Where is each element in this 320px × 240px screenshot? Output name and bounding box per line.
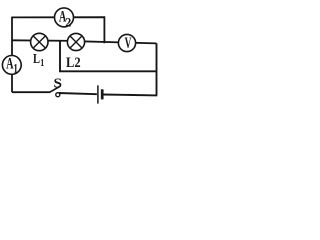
background bbox=[0, 0, 168, 107]
wire: top branch through ammeter A2 bbox=[12, 17, 104, 43]
svg-text:2: 2 bbox=[65, 14, 71, 29]
svg-text:S: S bbox=[54, 76, 63, 91]
wire: middle row right segment (through V) bbox=[76, 41, 157, 43]
wire: right vertical bbox=[156, 43, 158, 95]
svg-text:V: V bbox=[125, 35, 132, 52]
svg-text:L2: L2 bbox=[66, 55, 81, 71]
lamp L2 bbox=[67, 33, 84, 50]
wire: bottom segment battery to bottom-right corner bbox=[103, 94, 157, 97]
wire: bottom segment switch to battery bbox=[59, 93, 97, 94]
wire: middle row left segment (through L1, L2) bbox=[12, 39, 76, 42]
ammeter A2 bbox=[55, 8, 74, 27]
svg-text:L: L bbox=[33, 51, 40, 66]
wire: bypass from L1-L2 junction down and right bbox=[60, 41, 157, 72]
switch S pivot contact bbox=[56, 93, 60, 97]
switch S blade bbox=[50, 86, 61, 92]
battery short plate bbox=[101, 89, 104, 99]
svg-text:1: 1 bbox=[13, 60, 18, 75]
svg-text:1: 1 bbox=[40, 58, 44, 69]
ammeter A1 bbox=[2, 56, 21, 75]
wire: bottom left segment to switch bbox=[12, 91, 50, 93]
battery long plate bbox=[97, 85, 99, 103]
wire: left vertical bbox=[11, 17, 13, 93]
lamp L1 bbox=[31, 33, 48, 50]
voltmeter V bbox=[118, 34, 135, 51]
